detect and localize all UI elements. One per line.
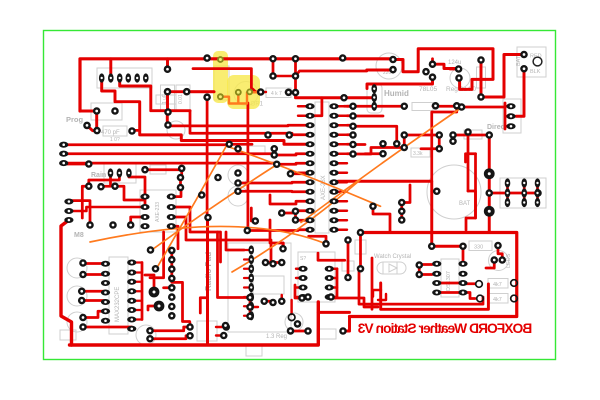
resistor outline — [150, 165, 166, 174]
wire bus row k8 — [238, 181, 306, 185]
wire humid feed — [367, 69, 393, 72]
wire bus row k11 — [282, 211, 306, 220]
wire GND left rail — [61, 220, 72, 345]
wire C6 pin1 — [166, 59, 169, 69]
wire — [295, 219, 306, 222]
wire rain — [64, 163, 89, 166]
wire c14a — [83, 311, 106, 317]
wire sensor col — [400, 203, 403, 221]
wire — [432, 190, 437, 193]
wire U2 left pin stub 9 — [298, 200, 306, 202]
transistor DR1 outline — [214, 66, 229, 100]
wire jumper cols — [508, 183, 538, 203]
wire — [353, 143, 365, 146]
wire U2 right pin stub 8 — [338, 181, 347, 183]
wire — [295, 285, 308, 298]
wire cn4 spine — [172, 250, 190, 321]
buzzer outline — [136, 325, 156, 345]
wire row97 — [296, 93, 375, 98]
wire — [462, 246, 465, 264]
wire U2 right pin stub 1 — [338, 115, 347, 117]
wire — [466, 154, 476, 162]
wire led feed — [498, 246, 502, 258]
wire r row106 — [375, 105, 404, 108]
wire U2 right pin stub 2 — [338, 124, 347, 126]
wire radio stub 1 — [244, 258, 251, 260]
wire U2 left pin stub 0 — [298, 105, 306, 107]
connector RAIN outline — [104, 164, 136, 183]
wire nest2 — [359, 270, 483, 304]
wire — [189, 322, 191, 327]
capacitor C14 outline — [67, 312, 87, 332]
svg-text:S?: S? — [300, 256, 306, 262]
wire U3 stub 5 — [132, 309, 142, 311]
wire U2 left pin stub 2 — [298, 124, 306, 126]
connector PROG pads — [83, 107, 136, 135]
capacitor C5 outline — [103, 126, 127, 136]
wire U3 stub 1 — [132, 271, 142, 273]
svg-text:MAX232CPE: MAX232CPE — [115, 287, 121, 322]
wire — [281, 295, 283, 301]
wire — [453, 134, 489, 137]
capacitor C12 C13 C14 pads — [78, 259, 87, 331]
wire U3 stub 0 — [132, 261, 142, 263]
wire U2 left pin stub 5 — [298, 162, 306, 164]
node pads DR1 area — [203, 72, 299, 101]
wire h2a — [115, 186, 145, 207]
regulator 78L05 pads — [422, 60, 436, 81]
wire via2 — [148, 306, 159, 310]
wire DR1 base — [193, 69, 261, 92]
svg-text:DS1307: DS1307 — [446, 271, 452, 291]
header H2 pads — [140, 194, 176, 230]
wire left jog — [82, 186, 89, 218]
board outline frame — [44, 31, 556, 360]
wire h2e — [171, 178, 181, 197]
wire bus row k10 — [270, 195, 306, 204]
wire — [359, 233, 362, 269]
wire — [404, 134, 439, 137]
wire to DR1 — [187, 90, 214, 93]
wire U2 right links — [347, 106, 353, 154]
wire U3 stub 2 — [132, 281, 142, 283]
wire U2 left pin stub 11 — [298, 219, 306, 221]
wire 78L05 gnd — [367, 77, 433, 88]
wire — [450, 68, 459, 71]
resistor R6 330 outline — [469, 241, 492, 251]
wire — [290, 300, 292, 314]
connector J1 outline — [97, 68, 152, 88]
wire bus b2b — [229, 143, 252, 146]
resistor outline — [317, 329, 336, 339]
IC U4 outline — [253, 276, 284, 294]
wire U3 link — [141, 263, 144, 320]
sensor HUMID outline — [367, 84, 382, 113]
wire radio1 — [171, 207, 220, 262]
wire U2 right pin stub 7 — [338, 172, 347, 174]
airwire DR1 route — [220, 92, 258, 103]
wire U2 right pin stub 13 — [338, 229, 347, 231]
capacitor C8 outline — [228, 165, 248, 185]
airwire end pads — [147, 246, 160, 272]
module RFM outline — [298, 252, 335, 302]
connector J1 pads — [99, 73, 149, 82]
svg-text:AXE-28X: AXE-28X — [321, 175, 327, 200]
IC U5 left pads — [432, 261, 441, 296]
connector CN3 pads — [64, 198, 73, 223]
highlight region 2 — [227, 75, 260, 109]
wire row76 — [273, 75, 296, 78]
wire U2 right pin stub 11 — [338, 210, 347, 212]
wire U3 stub 6 — [132, 318, 142, 320]
wire r106 feed — [432, 106, 457, 182]
wire — [251, 208, 255, 221]
wire GND bottom rail — [70, 302, 319, 345]
module RADIO outline — [228, 243, 291, 332]
capacitor C6 outline — [161, 85, 175, 111]
wire radio v — [218, 232, 251, 298]
node pads bottom center — [287, 293, 347, 335]
wire U2 right pin stub 6 — [338, 162, 347, 164]
wire cn4 a — [150, 232, 164, 278]
wire U2 left pin stub 8 — [298, 191, 306, 193]
capacitor C9 outline — [228, 186, 248, 206]
wire J1 pin2 — [109, 59, 112, 78]
wire BAT BLK — [516, 69, 524, 117]
wire C5 link — [132, 129, 140, 132]
header H2 outline — [140, 190, 176, 232]
svg-text:4k7: 4k7 — [493, 297, 502, 303]
wire row71 — [296, 71, 367, 76]
node pads jumper row — [485, 189, 541, 197]
wire bat link — [466, 191, 476, 230]
wire buz1 — [150, 327, 190, 331]
wire right vert — [488, 135, 491, 211]
wire reg staircase — [393, 49, 493, 90]
wire bus row k7 — [291, 172, 307, 175]
node pads radio — [222, 245, 287, 329]
wire radio stub 3 — [244, 277, 251, 279]
wire h2c — [69, 207, 145, 211]
wire elbow — [200, 298, 207, 313]
node pads ds left — [415, 261, 423, 278]
wire — [216, 334, 224, 336]
wire rain4 — [89, 173, 120, 186]
resistor R9 outline — [412, 103, 433, 111]
resistor outline — [464, 130, 482, 139]
svg-text:Watch Crystal: Watch Crystal — [374, 254, 411, 260]
sensor HUMID pads — [371, 84, 377, 111]
wire h2b — [69, 201, 90, 225]
wire bus b2 — [64, 143, 227, 146]
IC U5 right pads — [458, 261, 467, 296]
node pads center right — [344, 199, 502, 282]
wire J1 pin1 — [102, 78, 306, 144]
svg-text:3.3k: 3.3k — [413, 151, 423, 157]
wire — [216, 326, 226, 328]
svg-text:BLK: BLK — [530, 69, 541, 75]
wire cn4 b — [164, 286, 172, 289]
wire rfm link — [336, 269, 339, 297]
wire — [403, 135, 406, 148]
wire — [318, 253, 345, 260]
svg-text:470 pF: 470 pF — [101, 130, 120, 136]
svg-text:124u: 124u — [448, 60, 461, 66]
resistor R5 outline — [411, 148, 430, 157]
wire U2 left pin stub 4 — [298, 153, 306, 155]
node pad open — [288, 314, 295, 321]
wire radio stub 2 — [244, 268, 251, 270]
resistor outline — [246, 346, 262, 356]
wire rain3 — [101, 173, 111, 186]
wire direc stubs — [505, 103, 511, 129]
diode D1 pads — [477, 56, 485, 101]
wire U3 stub 3 — [132, 290, 142, 292]
wire humid3 — [353, 105, 374, 108]
wire R3 pins — [261, 91, 289, 94]
wire — [371, 258, 374, 309]
via pads bottom — [149, 287, 165, 312]
wire radio stub 4 — [244, 286, 251, 288]
capacitor C10 pads — [389, 56, 397, 74]
wire rfm left stubs — [296, 269, 303, 297]
connector PROG outline — [91, 103, 122, 120]
wire U2 left pin stub 10 — [298, 210, 306, 212]
svg-text:BAT: BAT — [459, 201, 471, 207]
svg-text:78L05: 78L05 — [419, 86, 437, 93]
connector BAT pads — [520, 51, 528, 73]
airwire 6 — [232, 180, 360, 272]
wire radio2 — [171, 217, 271, 262]
wire vert B — [247, 103, 250, 231]
wire — [418, 265, 421, 275]
wire jumper row — [489, 192, 538, 195]
svg-text:0.01: 0.01 — [178, 94, 184, 104]
wire led gnd — [486, 260, 494, 268]
node pads battery — [433, 128, 472, 195]
wire U2 left pin stub 1 — [298, 115, 306, 117]
module RADIO pads — [248, 245, 254, 320]
node pads col250 — [246, 294, 254, 320]
jumper J2 pads — [505, 178, 541, 207]
resistor outline — [60, 330, 76, 340]
resistor outline small — [247, 146, 265, 154]
svg-text:4 k 7: 4 k 7 — [271, 91, 282, 97]
wire ds row — [437, 283, 463, 293]
wire — [488, 211, 491, 232]
svg-text:BOXFORD Weather Station V3: BOXFORD Weather Station V3 — [357, 321, 532, 336]
connector CN4 pads — [168, 247, 176, 320]
connector DIREC outline — [503, 99, 521, 133]
airwire 3 — [152, 165, 277, 251]
wire — [352, 134, 353, 137]
wire 78L05 out — [433, 64, 459, 68]
wire — [249, 298, 252, 317]
svg-text:LEDS: LEDS — [506, 253, 512, 268]
svg-text:Humid: Humid — [384, 89, 409, 98]
node pads center — [198, 131, 299, 234]
wire dip stub k1 — [311, 98, 322, 116]
LED LD1 pads — [490, 256, 506, 264]
via pads on VCC rail — [203, 54, 346, 62]
capacitor C7 outline — [176, 85, 190, 111]
wire — [309, 236, 326, 244]
wire rfm right stubs — [329, 269, 337, 297]
wire U2 right pin stub 12 — [338, 219, 347, 221]
capacitor C11 124u outline — [450, 68, 470, 88]
IC U3 MAX232CPE outline — [109, 257, 128, 334]
resistor R7 4k7 outline — [488, 279, 508, 289]
connector DIREC pads — [506, 103, 515, 129]
wire via1 — [145, 275, 154, 292]
wire — [463, 282, 475, 285]
transistor Q1 outline — [285, 313, 303, 331]
highlight region 1 — [213, 51, 228, 103]
wire radio stub 0 — [244, 249, 251, 251]
capacitor C6 C7 pads — [164, 65, 191, 128]
node pads row2 — [85, 182, 119, 190]
wire r-net2 — [353, 126, 397, 144]
node pads bottom left — [146, 323, 230, 342]
airwire end pad — [322, 240, 330, 248]
capacitor C12 outline — [67, 258, 87, 278]
capacitor C11 pads — [455, 65, 463, 82]
wire R3 out — [289, 91, 296, 94]
wire radio stub 6 — [244, 305, 251, 307]
wire bus row k2 — [167, 124, 306, 127]
airwire 2 — [156, 146, 226, 269]
wire — [347, 240, 350, 278]
IC U2 left pads — [305, 103, 314, 233]
wire — [463, 293, 475, 299]
transistor DR1 circle — [234, 82, 258, 106]
wire J1 pin3 — [120, 78, 190, 111]
wire bus row k9 — [238, 190, 306, 193]
wire vert A — [206, 97, 209, 217]
diode D1 outline — [477, 67, 486, 88]
wire — [343, 330, 350, 333]
airwire 5 — [90, 226, 326, 243]
svg-text:330: 330 — [474, 245, 483, 251]
wire c12a — [83, 262, 106, 265]
wire — [343, 317, 350, 332]
airwire 1 — [226, 146, 380, 206]
wire prog — [80, 111, 97, 131]
wire bus b3 — [64, 149, 305, 155]
resistor R3 outline — [266, 88, 291, 98]
module RFM pads — [298, 266, 333, 300]
wire U2 left pin stub 12 — [298, 229, 306, 231]
wire — [291, 330, 309, 333]
svg-text:Prog: Prog — [66, 115, 84, 124]
wire h2d — [131, 217, 145, 225]
wire — [452, 135, 455, 141]
svg-text:1 0?: 1 0? — [110, 137, 120, 143]
resistor R7 R8 pads — [476, 280, 518, 302]
wire c12b — [83, 272, 106, 276]
wire — [226, 232, 244, 250]
wire C7 pins — [166, 111, 169, 126]
wire buz2 — [150, 336, 190, 339]
IC U3 left pads — [101, 261, 110, 324]
wire h2f — [171, 226, 178, 249]
node pad direc feed — [458, 103, 466, 111]
wire nest4 — [373, 290, 386, 300]
wire bat vert1 — [467, 132, 470, 191]
svg-text:Direc: Direc — [487, 124, 505, 131]
wire U2 left pin stub 7 — [298, 181, 306, 183]
wire D1 — [480, 60, 483, 97]
wire U2 right pin stub 9 — [338, 191, 347, 193]
resistor outline — [342, 261, 354, 271]
wire — [250, 306, 258, 308]
wire U2 right pin stub 5 — [338, 153, 347, 155]
wire C6-C7 — [168, 90, 215, 93]
wire — [402, 185, 410, 203]
node pads right of U2 — [349, 102, 357, 157]
LED LD1 outline — [489, 251, 509, 271]
svg-text:1.3 Reg: 1.3 Reg — [266, 334, 287, 340]
node pads mid right — [379, 131, 493, 157]
transistor DR1 pads highlighted — [217, 56, 253, 100]
wire — [282, 243, 285, 249]
wire r-net1 — [353, 115, 383, 118]
wire stub2 — [272, 59, 275, 76]
capacitor outline — [167, 121, 185, 139]
wire ds left — [419, 265, 432, 275]
svg-text:4k7: 4k7 — [493, 282, 502, 288]
wire — [344, 105, 353, 108]
wire bat vert2 — [474, 154, 477, 218]
crystal X1 outline — [377, 262, 406, 274]
node pads rain — [85, 160, 186, 191]
wire rain2 — [145, 168, 182, 177]
airwire 4 — [301, 108, 462, 223]
wire U2 right pin stub 3 — [338, 134, 347, 136]
IC U5 DS1307 outline — [441, 259, 459, 297]
wire U2 left pin stub 3 — [298, 143, 306, 145]
via pads large — [484, 168, 495, 216]
IC U3 right pads — [127, 259, 136, 331]
IC U2 right pads — [329, 103, 338, 233]
wire direc feed — [462, 106, 505, 109]
connector RAIN pads — [108, 168, 132, 177]
wire — [264, 301, 273, 302]
wire vert A2 — [206, 218, 209, 346]
capacitor C10 220u outline — [376, 53, 402, 79]
wire stub3 — [294, 59, 297, 93]
wire — [270, 220, 283, 250]
wire — [373, 206, 390, 232]
wire bus row k3 — [190, 111, 306, 135]
wire r-net3 — [353, 148, 404, 155]
wire U3 stub 4 — [132, 300, 142, 302]
node pads row3 — [86, 221, 134, 229]
connector BAT outline — [517, 47, 546, 77]
connector CN2 pads — [59, 142, 68, 167]
wire bat horiz — [338, 181, 432, 246]
wire bus row k13 — [247, 228, 306, 232]
wire U2 left pin stub 6 — [298, 172, 306, 174]
connector BAT mounting hole — [533, 57, 542, 66]
wire — [266, 261, 282, 264]
svg-text:AXE-233: AXE-233 — [155, 202, 161, 222]
wire c13b — [82, 301, 106, 303]
wire bus b4 — [64, 163, 305, 164]
resistor R8 4k7 outline — [488, 294, 508, 304]
wire — [318, 311, 349, 314]
wire — [365, 152, 383, 155]
